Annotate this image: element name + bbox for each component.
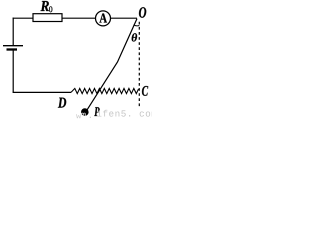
watermark: faint w left of bob <box>76 114 81 118</box>
resistance wire D-C: zigzag <box>71 88 139 93</box>
wire: left vertical, top wire down to battery positive plate <box>12 18 14 46</box>
wire: left vertical, battery negative plate down to bottom wire <box>12 50 14 92</box>
resistor R0 body <box>33 14 62 22</box>
battery cell: short thick negative plate <box>7 48 18 50</box>
watermark: white m over bob <box>81 113 86 118</box>
node D label <box>58 98 66 108</box>
ammeter: letter A <box>99 14 107 23</box>
label R0: subscript 0 <box>49 6 52 12</box>
pendulum string: diagonal line from O to bob P <box>87 19 137 111</box>
dashed vertical reference line from O down to C <box>138 22 140 107</box>
watermark: 1fen5.com <box>97 110 156 117</box>
angle arc at O between string and dashed line <box>134 25 140 26</box>
battery cell: long thin positive plate <box>3 45 23 47</box>
label R0: letter R <box>41 1 49 11</box>
node O label <box>139 7 146 18</box>
label P <box>94 107 99 116</box>
ammeter: circle <box>96 11 111 26</box>
pendulum bob P: filled dot <box>81 108 89 116</box>
wire: bottom horizontal, to node D / resistance wire <box>13 91 71 93</box>
wire: top horizontal, resistor R0 to ammeter <box>62 17 96 19</box>
node C label <box>142 86 148 96</box>
wire: top horizontal, battery to resistor R0 <box>13 17 33 19</box>
watermark: faint dot right of bob <box>90 117 91 118</box>
wire: top horizontal, ammeter to node O <box>110 17 137 19</box>
angle label theta <box>132 33 137 41</box>
